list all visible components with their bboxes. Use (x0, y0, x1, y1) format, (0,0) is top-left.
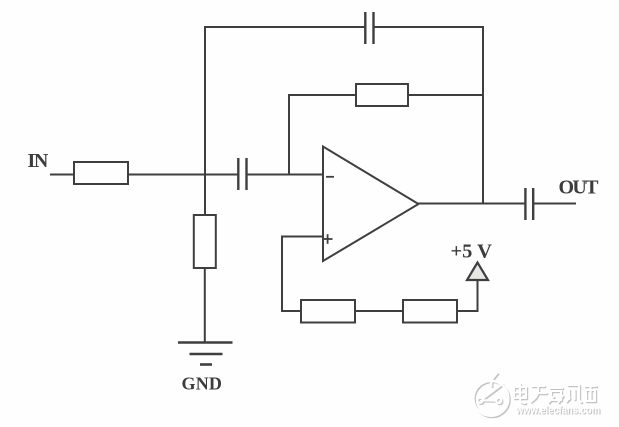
capacitor C2 (input coupling) (238, 158, 246, 190)
wire bottom chain left stub (281, 310, 301, 312)
watermark url text (embossed) (515, 405, 601, 418)
watermark chinese characters (glyph-like shapes, embossed) (514, 383, 598, 404)
wire R3 bottom lead to ground (204, 268, 206, 342)
wire left vertical (top loop down to R3) (204, 26, 206, 215)
svg-text:GND: GND (182, 374, 223, 394)
watermark logo (elecfans, embossed) (474, 373, 510, 418)
svg-text:www.elecfans.com: www.elecfans.com (515, 405, 600, 417)
wire R1 to C2 (128, 174, 238, 176)
wire output (U1 to C3) (418, 203, 526, 205)
pin label plus (non-inverting input) (323, 234, 333, 244)
capacitor C3 (output coupling) (525, 188, 533, 220)
resistor R2 (feedback) (356, 84, 408, 106)
wire +5V riser vertical (477, 281, 479, 312)
power symbol +5V arrow (467, 263, 488, 281)
wire IN stub (50, 174, 74, 176)
resistor R4 (bottom left) (301, 300, 355, 323)
svg-text:OUT: OUT (559, 177, 600, 199)
resistor R3 (to ground, vertical) (194, 215, 216, 268)
ground (178, 343, 233, 365)
wire R5 to supply riser (457, 310, 479, 312)
wire top horizontal right (C1 to node B) (374, 26, 485, 28)
wire OUT stub (533, 203, 576, 205)
wire feedback resistor left segment (288, 94, 356, 96)
wire feedback resistor right segment (408, 94, 483, 96)
wire non-inverting input horizontal (281, 236, 323, 238)
wire C2 to op-amp inverting input (247, 174, 324, 176)
wire non-inverting input vertical (281, 237, 283, 313)
resistor R1 (input) (74, 162, 128, 184)
pin label minus (inverting input) (326, 176, 334, 178)
wire top horizontal left (node A to C1) (204, 26, 365, 28)
wire feedback vertical to inverting input (288, 95, 290, 175)
svg-text:+5 V: +5 V (451, 240, 493, 262)
resistor R5 (bottom right) (403, 300, 457, 323)
wire right vertical (node B down to output node) (482, 26, 484, 205)
op-amp U1 (323, 147, 419, 262)
wire between R4 and R5 (355, 310, 403, 312)
svg-text:IN: IN (28, 150, 49, 172)
capacitor C1 (top feedback) (365, 12, 373, 44)
